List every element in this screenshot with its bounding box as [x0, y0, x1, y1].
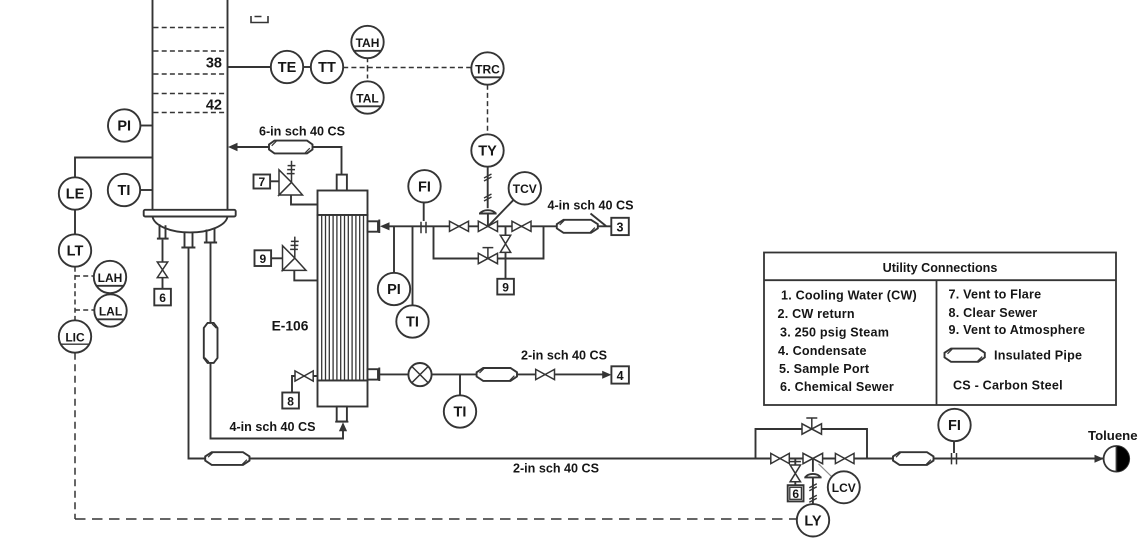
signal LIC down dashed [74, 353, 76, 519]
PSV-9 spring [290, 237, 299, 259]
svg-text:TI: TI [406, 315, 419, 331]
vertical insulated pipe on feed [204, 323, 218, 363]
box 9 vent to atmosphere (reboiler) [255, 250, 272, 266]
column bottom flange band [144, 210, 236, 217]
drain valve (vertical) [790, 465, 800, 482]
box 9 vent to atmosphere (steam) [497, 279, 514, 295]
svg-text:2-in sch 40 CS: 2-in sch 40 CS [521, 348, 607, 362]
svg-text:4-in sch 40 CS: 4-in sch 40 CS [547, 199, 633, 213]
svg-text:E-106: E-106 [272, 319, 309, 334]
tray 42 dashed [154, 112, 227, 114]
LCV bypass right riser [822, 429, 868, 459]
svg-text:Utility Connections: Utility Connections [883, 261, 998, 275]
svg-text:38: 38 [206, 56, 222, 72]
svg-text:TCV: TCV [513, 182, 537, 196]
column shell wall left [152, 0, 154, 210]
leader TCV tag [488, 200, 514, 227]
vapor return arrow into column [228, 143, 238, 151]
svg-text:LCV: LCV [832, 481, 856, 495]
svg-text:5. Sample Port: 5. Sample Port [779, 362, 870, 376]
utility connections table frame [764, 253, 1116, 406]
leader label to pipe [591, 214, 607, 227]
signal LT to LIC dashed [74, 267, 76, 321]
svg-text:4. Condensate: 4. Condensate [778, 344, 867, 358]
svg-text:TT: TT [318, 60, 336, 76]
bypass globe valve (LCV station) [802, 424, 822, 434]
instrument LY [797, 504, 829, 536]
svg-text:6: 6 [792, 487, 799, 501]
steam vent stub [505, 226, 507, 235]
instrument LAH [94, 261, 126, 293]
signal TT to TRC dashed [343, 67, 471, 69]
bottom nozzle N3 flange [204, 242, 217, 244]
drain tee tick [790, 461, 801, 463]
svg-text:6-in sch 40 CS: 6-in sch 40 CS [259, 124, 345, 138]
bottom nozzle N1 stubs [160, 224, 166, 238]
svg-text:42: 42 [206, 98, 222, 114]
svg-text:9. Vent to Atmosphere: 9. Vent to Atmosphere [949, 323, 1086, 337]
E-106 bottom nozzle [337, 407, 347, 422]
gate valve steam upstream [450, 221, 469, 231]
gate valve steam downstream [512, 221, 531, 231]
box 3 250 psig steam [611, 218, 629, 235]
svg-text:Toluene: Toluene [1088, 428, 1138, 443]
svg-text:4: 4 [617, 369, 624, 383]
legend insulated pipe symbol [945, 349, 985, 362]
wire PI to column [140, 125, 152, 127]
wire feed down and to reboiler [211, 363, 344, 439]
table column divider [936, 280, 938, 405]
wire TI to column [140, 189, 152, 191]
wire PI stem (steam) [393, 226, 395, 272]
FI orifice ticks (product) [952, 453, 957, 464]
signal TY to TCV actuator with slashes [487, 167, 489, 209]
signal TRC to TY dashed [487, 85, 489, 135]
svg-text:8: 8 [287, 394, 294, 408]
svg-text:PI: PI [117, 119, 131, 135]
instrument FI (steam) [408, 170, 440, 202]
svg-text:TAL: TAL [356, 91, 378, 105]
wire shell to valve 8 [296, 375, 318, 377]
svg-text:TRC: TRC [475, 62, 500, 76]
svg-text:7. Vent to Flare: 7. Vent to Flare [949, 287, 1042, 301]
wire 6-in vapor line [237, 147, 342, 175]
bottom nozzle N3 stubs [207, 229, 215, 243]
instrument LE [59, 177, 91, 209]
E-106 top nozzle [337, 175, 347, 191]
TCV actuator dome [479, 210, 497, 213]
wire condensate line [379, 373, 535, 375]
svg-text:CS - Carbon Steel: CS - Carbon Steel [953, 378, 1063, 392]
insulated pipe symbol on 6-in line [269, 141, 313, 154]
gate valve condensate [536, 369, 555, 379]
insulated pipe symbol on steam line [557, 220, 598, 233]
insulated pipe symbol after station [893, 452, 934, 465]
instrument PI (steam) [378, 273, 410, 305]
FI orifice ticks [421, 222, 426, 233]
instrument TI (steam) [396, 305, 428, 337]
svg-text:LIC: LIC [65, 330, 85, 344]
wire PSV-7 outlet to shell [291, 195, 318, 205]
wire drain valve to box 6 [794, 482, 796, 485]
steam bypass left riser [434, 226, 479, 258]
wire TI stem (steam) [412, 226, 414, 305]
svg-text:TAH: TAH [356, 36, 380, 50]
svg-text:TE: TE [278, 60, 297, 76]
instrument LT [59, 234, 91, 266]
column dished bottom head [153, 217, 228, 233]
svg-text:3: 3 [617, 221, 624, 235]
signal LIC to LY long dashed [75, 518, 797, 520]
instrument tag LCV [828, 471, 860, 503]
TCV actuator stem [487, 214, 489, 227]
svg-text:6. Chemical Sewer: 6. Chemical Sewer [780, 380, 894, 394]
instrument FI (product) [938, 409, 970, 441]
tray 36 dashed [154, 27, 227, 29]
svg-text:2-in sch 40 CS: 2-in sch 40 CS [513, 461, 599, 475]
svg-text:Insulated Pipe: Insulated Pipe [994, 348, 1082, 362]
box 8 clear sewer [282, 393, 299, 409]
instrument TT [311, 51, 343, 83]
wire bottoms product line [189, 248, 771, 459]
wire valve to box 8 [292, 376, 295, 393]
steam trap [408, 363, 431, 386]
wire vent valve to box 9 [505, 252, 507, 278]
E-106 top channel head [318, 191, 368, 216]
wire FI stem [423, 203, 425, 222]
bypass globe valve T-handle [483, 248, 494, 259]
control valve TCV body [478, 221, 497, 231]
svg-text:LAL: LAL [99, 304, 122, 318]
svg-text:LT: LT [67, 244, 84, 260]
gate valve downstream of LCV [835, 453, 854, 463]
bottom nozzle N2 stubs [185, 232, 193, 248]
svg-text:LE: LE [66, 187, 85, 203]
wire box9 to relief valve [271, 257, 282, 259]
instrument TI (column) [108, 174, 140, 206]
instrument TY [471, 134, 503, 166]
svg-text:2. CW return: 2. CW return [778, 307, 855, 321]
svg-text:FI: FI [948, 418, 961, 434]
manual valve 8 [295, 371, 313, 381]
arrow feed into E-106 [339, 422, 347, 431]
arrow to product [1095, 455, 1104, 463]
tray 38 dashed [154, 73, 227, 75]
wire box7 to relief valve [270, 180, 279, 182]
svg-text:3. 250 psig Steam: 3. 250 psig Steam [780, 325, 889, 339]
wire TE to TT [303, 66, 311, 68]
LCV actuator dome (below) [804, 474, 821, 477]
product symbol (toluene) [1104, 446, 1130, 472]
instrument TAL [351, 81, 383, 113]
svg-text:6: 6 [159, 291, 166, 305]
svg-text:1. Cooling Water (CW): 1. Cooling Water (CW) [781, 288, 917, 302]
box 6 chemical sewer [154, 289, 171, 306]
relief valve PSV-9 [283, 246, 307, 271]
instrument PI (column) [108, 109, 140, 141]
condensate nozzle flange [378, 368, 380, 382]
column shell wall right [227, 0, 229, 210]
steam bypass right riser [498, 226, 544, 258]
svg-text:LY: LY [804, 513, 822, 529]
arrow into box 4 [602, 371, 611, 379]
steam nozzle flange [378, 220, 380, 234]
wire column to TE [228, 66, 271, 68]
manual valve (vertical) on drain [157, 262, 167, 278]
wire main line through LCV station [771, 458, 868, 460]
svg-text:TI: TI [454, 405, 467, 421]
drain line to valve 6 [162, 240, 164, 262]
wire to box 4 [555, 373, 605, 375]
wire valve to box 6 [162, 278, 164, 289]
control valve LCV body [803, 453, 823, 463]
tray 37 dashed [154, 50, 227, 52]
E-106 steam inlet nozzle [368, 221, 379, 231]
signal LAH dashed stub [75, 275, 94, 277]
signal LY to actuator with slashes [812, 477, 814, 504]
E-106 bottom channel head [318, 381, 368, 407]
signal LAL dashed stub [75, 309, 94, 311]
bypass globe valve T-handle [806, 418, 817, 429]
wire main line after station [867, 458, 1103, 460]
wire TI stem (condensate) [459, 374, 461, 395]
svg-text:FI: FI [418, 179, 431, 195]
vent valve (vertical) [500, 235, 510, 252]
instrument LAL [94, 294, 126, 326]
wire PSV-9 outlet to shell [294, 270, 317, 280]
signal TAH dashed stub [367, 58, 369, 67]
leader LCV tag [819, 464, 832, 477]
gate valve upstream of LCV [771, 453, 790, 463]
E-106 condensate nozzle [368, 369, 379, 379]
instrument TRC [471, 52, 503, 84]
insulated pipe symbol on condensate line [477, 368, 517, 381]
wire LE to LT [74, 210, 76, 235]
instrument TI (condensate) [444, 395, 476, 427]
LCV actuator stem [812, 459, 814, 472]
instrument tag TCV [509, 172, 541, 204]
box 4 condensate [611, 366, 629, 383]
svg-text:PI: PI [387, 282, 401, 298]
svg-text:TI: TI [118, 183, 131, 199]
table header divider [764, 279, 1116, 281]
box 6 chemical sewer (double border) [788, 485, 804, 501]
box 7 vent to flare [254, 175, 271, 189]
instrument LIC [59, 320, 91, 352]
instrument TAH [351, 26, 383, 58]
wire steam main line [389, 225, 557, 227]
relief valve PSV-7 [279, 170, 303, 195]
svg-text:LAH: LAH [98, 271, 123, 285]
LCV bypass left riser [756, 429, 803, 459]
svg-text:TY: TY [478, 144, 497, 160]
bypass globe valve body [478, 253, 497, 263]
drain tee stub [794, 459, 796, 466]
svg-text:8. Clear Sewer: 8. Clear Sewer [949, 306, 1038, 320]
svg-text:7: 7 [258, 175, 265, 189]
wire LE up and to column [75, 158, 153, 178]
wire pipe to box 3 [598, 225, 612, 227]
instrument TE [271, 51, 303, 83]
wire reboiler feed from column N3 [210, 243, 212, 323]
svg-text:9: 9 [502, 280, 509, 294]
bottom nozzle N2 flange [181, 247, 195, 249]
svg-text:4-in sch 40 CS: 4-in sch 40 CS [229, 420, 315, 434]
PSV-7 spring [287, 161, 296, 183]
E-106 shell with tubes [318, 215, 368, 381]
insulated pipe symbol on bottoms line [205, 452, 249, 465]
signal TAL dashed stub [367, 68, 369, 82]
bottom nozzle N1 flange [157, 238, 169, 240]
box 5 remnant (cut off at top) [251, 16, 268, 23]
steam arrow into reboiler [380, 222, 390, 230]
tray 41 dashed [154, 93, 227, 95]
svg-text:9: 9 [259, 252, 266, 266]
wire FI stem (product) [953, 441, 955, 453]
